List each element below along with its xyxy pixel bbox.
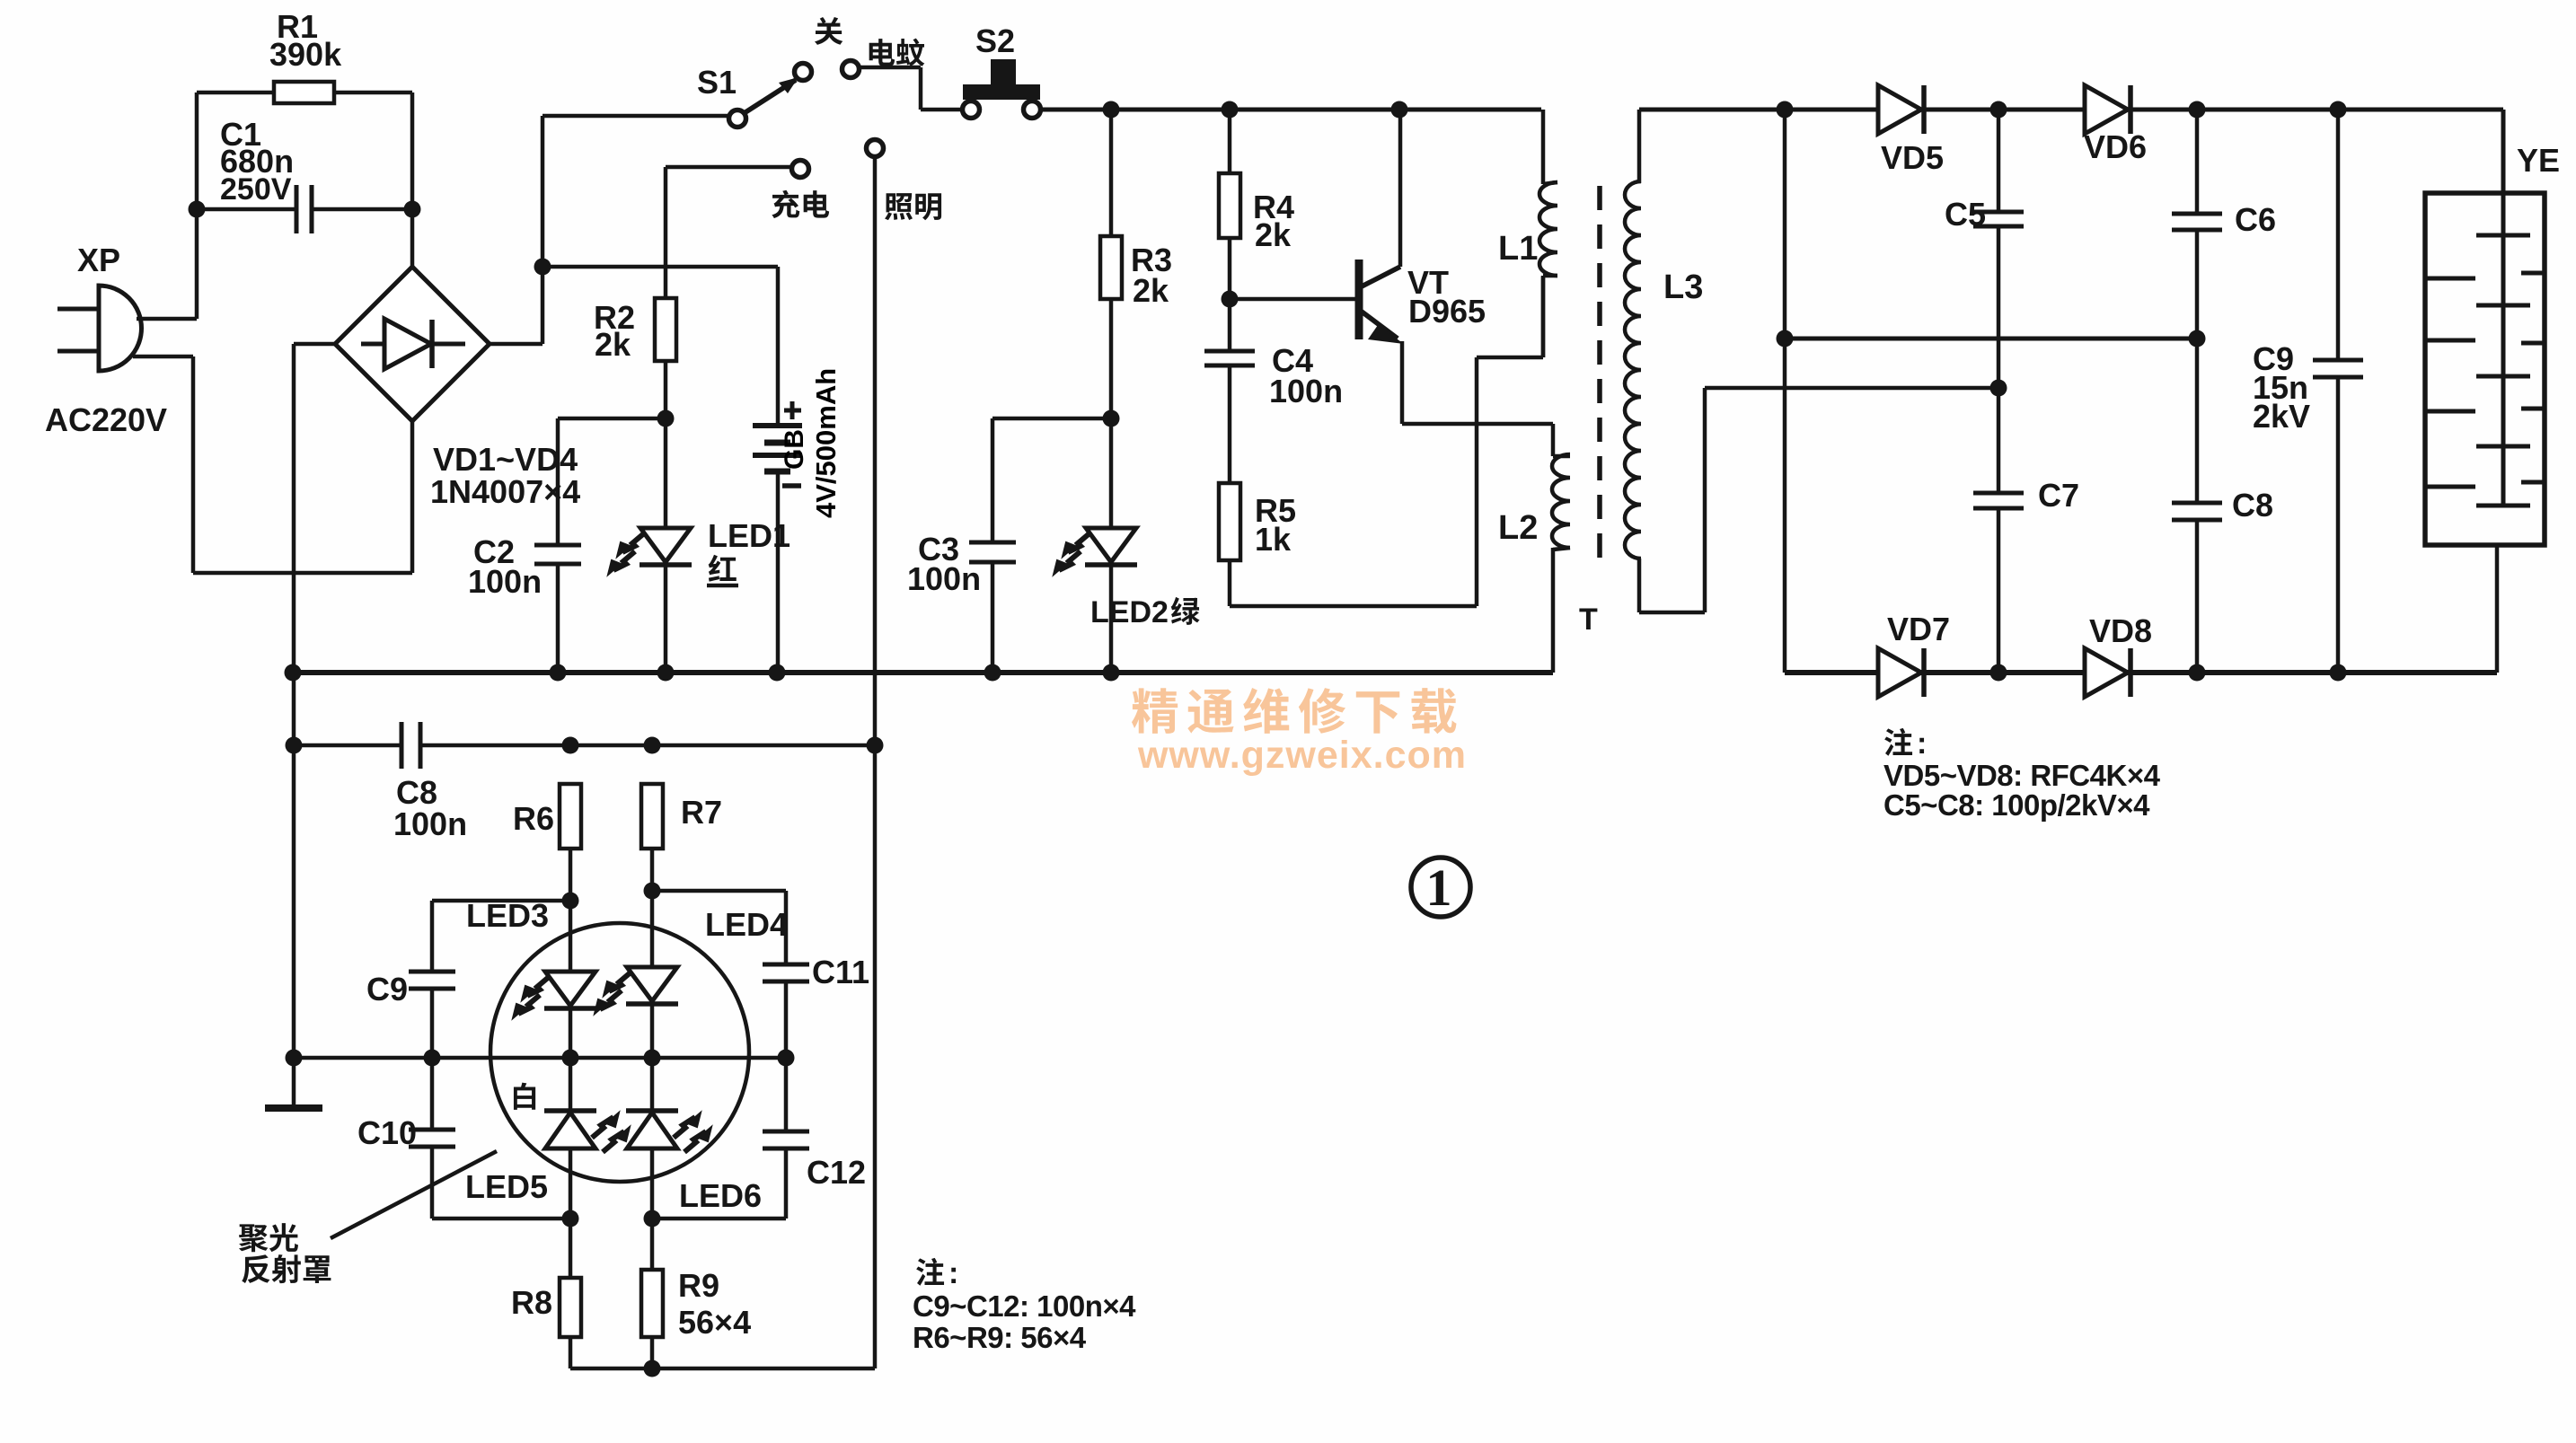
- svg-text:XP: XP: [77, 242, 120, 278]
- svg-text:LED4: LED4: [705, 906, 788, 943]
- svg-text:C5: C5: [1945, 196, 1986, 233]
- svg-text:C10: C10: [357, 1114, 417, 1151]
- svg-text:C6: C6: [2235, 201, 2276, 238]
- svg-text:R6~R9: 56×4: R6~R9: 56×4: [913, 1321, 1087, 1354]
- svg-text:R9: R9: [678, 1267, 719, 1304]
- svg-text:C12: C12: [807, 1154, 866, 1191]
- svg-text:1k: 1k: [1255, 521, 1292, 558]
- svg-text:D965: D965: [1408, 293, 1486, 330]
- svg-text:100n: 100n: [468, 563, 542, 600]
- svg-text:LED5: LED5: [465, 1168, 548, 1205]
- svg-text:390k: 390k: [269, 36, 342, 73]
- svg-text:L2: L2: [1498, 509, 1538, 547]
- svg-text:AC220V: AC220V: [45, 401, 167, 438]
- svg-text:R8: R8: [511, 1284, 552, 1321]
- svg-text:LED2: LED2: [1090, 595, 1169, 629]
- svg-text:VD7: VD7: [1887, 611, 1950, 647]
- svg-text:L1: L1: [1498, 230, 1538, 268]
- svg-text:R6: R6: [513, 800, 554, 837]
- svg-text:C5~C8: 100p/2kV×4: C5~C8: 100p/2kV×4: [1883, 788, 2150, 822]
- svg-text:VD8: VD8: [2089, 612, 2152, 649]
- svg-text:56×4: 56×4: [678, 1304, 751, 1341]
- svg-text:100n: 100n: [393, 805, 467, 842]
- svg-text:VD5: VD5: [1881, 139, 1944, 176]
- svg-text:1: 1: [1426, 858, 1452, 917]
- svg-text:VD6: VD6: [2084, 128, 2147, 165]
- svg-text:100n: 100n: [907, 560, 981, 597]
- svg-text:C9~C12: 100n×4: C9~C12: 100n×4: [913, 1289, 1136, 1323]
- svg-text:VD5~VD8: RFC4K×4: VD5~VD8: RFC4K×4: [1883, 759, 2161, 792]
- svg-text:4V/500mAh: 4V/500mAh: [810, 368, 842, 518]
- svg-text:2kV: 2kV: [2253, 398, 2310, 435]
- svg-text:GB: GB: [780, 429, 809, 470]
- svg-text:2k: 2k: [1255, 216, 1292, 253]
- svg-text:www.gzweix.com: www.gzweix.com: [1137, 734, 1467, 777]
- svg-text:L3: L3: [1663, 268, 1703, 306]
- svg-text:YE: YE: [2517, 142, 2560, 179]
- svg-text:LED6: LED6: [679, 1177, 762, 1214]
- svg-text:R7: R7: [681, 794, 722, 831]
- svg-text:250V: 250V: [220, 172, 292, 207]
- svg-text:C9: C9: [366, 971, 408, 1007]
- svg-text:S2: S2: [975, 22, 1015, 59]
- svg-text::: :: [948, 1256, 958, 1290]
- svg-text:C11: C11: [812, 954, 869, 990]
- svg-text:100n: 100n: [1269, 373, 1343, 409]
- svg-text:C7: C7: [2038, 477, 2079, 514]
- svg-text:2k: 2k: [595, 326, 631, 363]
- svg-text:T: T: [1579, 603, 1598, 637]
- svg-text:2k: 2k: [1133, 272, 1169, 309]
- svg-text:C8: C8: [2232, 487, 2273, 524]
- svg-text:LED3: LED3: [466, 897, 549, 934]
- svg-text:S1: S1: [697, 64, 737, 101]
- svg-text::: :: [1917, 726, 1927, 761]
